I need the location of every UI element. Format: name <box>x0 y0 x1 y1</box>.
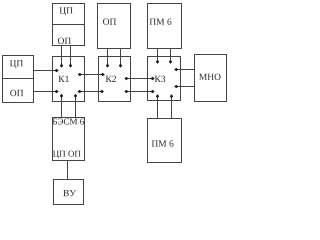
wire K3 to МНО upper horizontal <box>174 68 194 71</box>
wire K1 to БЭСМ6 right vertical <box>74 94 77 118</box>
label ОП block B <box>103 18 116 24</box>
wire A to K1 left vertical <box>60 46 63 68</box>
wire B to K2 right vertical <box>119 49 122 68</box>
wire K2 to K3 upper horizontal <box>124 77 154 80</box>
label ВУ <box>63 190 76 196</box>
label МНО <box>199 74 221 80</box>
wire K1 to K2 lower horizontal <box>78 90 105 93</box>
label К2 <box>106 76 116 82</box>
wire A to K1 right vertical <box>69 46 72 68</box>
wire D to K1 upper horizontal <box>34 69 59 72</box>
switch K1 <box>53 57 85 102</box>
wire БЭСМ6 to ВУ vertical <box>67 161 69 180</box>
label ЦП block A <box>60 7 73 15</box>
label К1 <box>59 76 69 82</box>
wire K1 to K2 upper horizontal <box>78 73 105 76</box>
label К3 <box>155 76 166 82</box>
label ОП block D <box>10 90 23 96</box>
block D left ЦП/ОП <box>3 56 34 103</box>
block C ПМ 6 <box>148 4 182 49</box>
label ПМ 6 bottom <box>152 140 174 146</box>
block ПМ 6 bottom <box>148 119 182 163</box>
label ЦП block D <box>10 60 23 68</box>
wire K2 to K3 lower horizontal <box>124 90 154 93</box>
wire C to K3 right vertical <box>169 49 172 64</box>
wire K3 to ПМ6 left vertical <box>156 94 159 118</box>
label ЦП ОП <box>53 151 81 159</box>
wire C to K3 left vertical <box>156 49 159 64</box>
wire D to K1 lower horizontal <box>34 90 59 93</box>
block A top-left ЦП/ОП <box>53 4 85 46</box>
wire K3 to ПМ6 right vertical <box>170 94 173 118</box>
switch K2 <box>99 57 131 102</box>
block B ОП <box>98 4 131 49</box>
wire K1 to БЭСМ6 left vertical <box>60 94 63 118</box>
wire B to K2 left vertical <box>106 49 109 68</box>
block БЭСМ 6 <box>53 118 85 161</box>
label ПМ 6 block C <box>150 19 172 25</box>
wire K3 to МНО lower horizontal <box>174 85 194 88</box>
label БЭСМ 6 <box>53 118 84 124</box>
label ОП block A <box>58 38 71 44</box>
block МНО <box>195 55 227 102</box>
switch K3 <box>148 57 181 101</box>
block ВУ <box>54 180 84 205</box>
